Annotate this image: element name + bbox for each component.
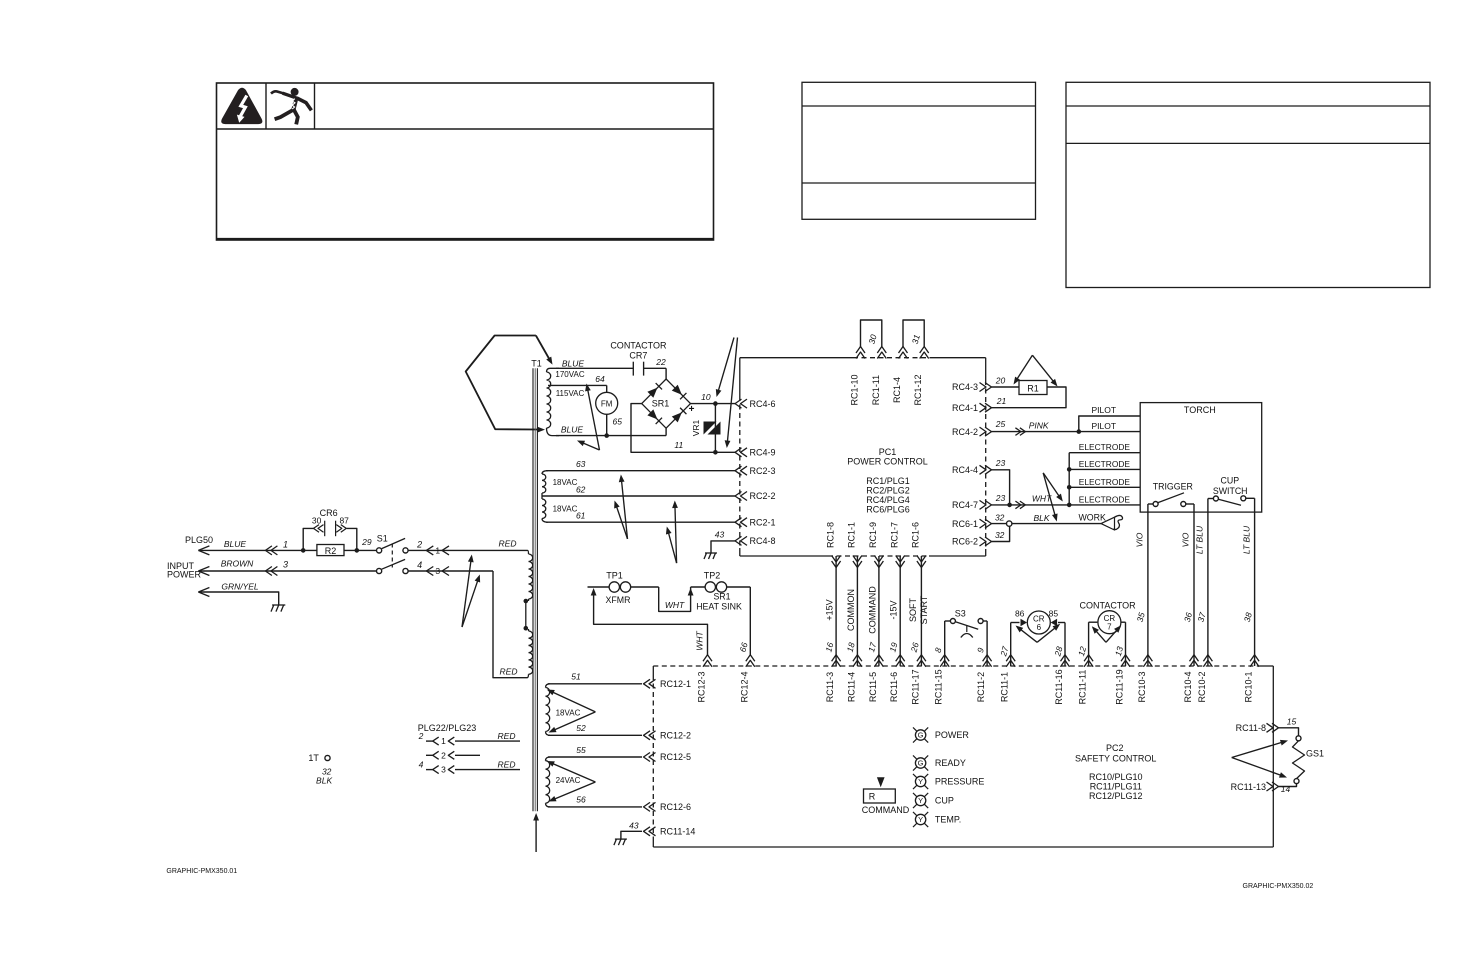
connector RC1-6 (917, 561, 926, 568)
connector RC12-3 (703, 655, 712, 662)
svg-text:RC10-3: RC10-3 (1137, 671, 1147, 702)
PC2 safety control board boundary (653, 665, 1260, 667)
annotation arrows 18VAC upper (621, 478, 627, 538)
wire 30 loop (861, 320, 882, 347)
connector RC11-11 (1084, 655, 1093, 662)
svg-text:RC12-1: RC12-1 (660, 679, 691, 689)
svg-text:TP2: TP2 (704, 571, 721, 581)
wire 4 / pin 3 to transformer primary bottom (408, 570, 493, 572)
connector RC11-14 (644, 827, 651, 836)
svg-text:18VAC: 18VAC (553, 478, 578, 487)
svg-text:21: 21 (996, 396, 1007, 406)
svg-text:BLUE: BLUE (562, 359, 585, 369)
wire 55 (548, 756, 642, 758)
svg-text:ELECTRODE: ELECTRODE (1079, 442, 1131, 452)
torch box (1140, 403, 1262, 512)
svg-text:COMMAND: COMMAND (862, 805, 910, 815)
svg-text:RC4-1: RC4-1 (952, 403, 978, 413)
wire 27 (1010, 623, 1012, 667)
svg-text:LT BLU: LT BLU (1241, 525, 1251, 554)
wire 8 (944, 621, 946, 666)
wire 26 (soft start) (920, 556, 922, 666)
svg-text:56: 56 (576, 795, 586, 805)
svg-text:RC6-1: RC6-1 (952, 519, 978, 529)
svg-text:PRESSURE: PRESSURE (935, 777, 985, 787)
svg-text:RC12-3: RC12-3 (697, 671, 707, 702)
wire from bridge bottom vertex to AC (blue) (665, 428, 667, 435)
svg-text:T1: T1 (531, 359, 542, 369)
svg-text:1: 1 (435, 546, 440, 556)
wire 18 (COMMON) (856, 556, 858, 666)
TP2 leader arrow (688, 588, 694, 596)
svg-text:RC12/PLG12: RC12/PLG12 (1089, 791, 1143, 801)
wire 25 PINK (pilot) (992, 431, 1079, 433)
PLG22/23 pin 2 (426, 754, 433, 756)
svg-text:RC2/PLG2: RC2/PLG2 (866, 486, 910, 496)
svg-text:RC11-14: RC11-14 (660, 827, 695, 837)
connector RC1-11 (877, 347, 886, 354)
svg-text:PC1: PC1 (879, 447, 897, 457)
svg-text:RC11-17: RC11-17 (910, 669, 920, 704)
PILOT wires into torch (1079, 416, 1140, 432)
svg-text:SR1: SR1 (713, 592, 730, 602)
wire 61 (546, 521, 735, 523)
svg-text:3: 3 (435, 566, 440, 576)
svg-text:RC11-1: RC11-1 (1000, 672, 1010, 702)
svg-text:29: 29 (361, 537, 372, 547)
svg-text:2: 2 (441, 750, 446, 760)
connector RC1-10 (856, 347, 865, 354)
wire 43 + ground at RC11-14 (621, 831, 642, 839)
annotation arrows near FM (581, 442, 600, 450)
svg-text:CONTACTOR: CONTACTOR (1080, 601, 1137, 611)
wire 32 from RC6-2 (992, 526, 1010, 541)
svg-text:4: 4 (417, 560, 422, 570)
connector RC4-1 (985, 403, 992, 412)
svg-text:FM: FM (601, 399, 613, 408)
svg-text:23: 23 (995, 458, 1006, 468)
CR7 annotation arrows (1094, 629, 1106, 642)
svg-text:RC1-12: RC1-12 (913, 374, 923, 405)
wire 63 (546, 470, 735, 472)
wire 28 (1064, 623, 1066, 667)
wire 11 : bridge minus to RC4-9 (631, 404, 735, 453)
svg-text:14: 14 (1281, 784, 1291, 794)
svg-text:RC4/PLG4: RC4/PLG4 (866, 495, 910, 505)
connector RC2-2 (735, 492, 742, 501)
svg-text:51: 51 (571, 672, 581, 682)
annotation arrows 18VAC lower (550, 691, 595, 712)
wire BLUE bottom to rectifier (556, 435, 666, 437)
svg-text:RED: RED (498, 760, 516, 770)
connector RC12-6 (644, 802, 651, 811)
svg-text:BLK: BLK (1033, 513, 1049, 523)
svg-text:ELECTRODE: ELECTRODE (1079, 494, 1131, 504)
PC1 power control board boundary (740, 357, 853, 359)
svg-text:R1: R1 (1027, 384, 1039, 394)
svg-text:RC10-4: RC10-4 (1183, 671, 1193, 702)
connector RC11-16 (1061, 655, 1070, 662)
connector RC1-7 (896, 561, 905, 568)
svg-text:10: 10 (701, 392, 711, 402)
annotation arrows R1 (1016, 355, 1033, 381)
connector RC1-9 (874, 561, 883, 568)
svg-text:GRN/YEL: GRN/YEL (221, 582, 259, 592)
svg-text:RC2-1: RC2-1 (750, 517, 776, 527)
connector RC4-9 (735, 448, 742, 457)
svg-text:VIO: VIO (1181, 532, 1191, 547)
svg-text:RC2-2: RC2-2 (750, 491, 776, 501)
svg-text:WHT: WHT (695, 631, 705, 651)
svg-text:RC1-11: RC1-11 (871, 375, 881, 405)
wire 36 VIO (1193, 504, 1195, 666)
svg-text:POWER: POWER (167, 570, 202, 580)
svg-text:ELECTRODE: ELECTRODE (1079, 477, 1131, 487)
node: R2 right junction (355, 548, 360, 553)
switch S1 pole 2 (377, 568, 382, 573)
svg-text:65: 65 (613, 417, 623, 427)
svg-text:BLK: BLK (316, 776, 332, 786)
svg-text:PLG50: PLG50 (185, 535, 213, 545)
svg-text:TORCH: TORCH (1184, 405, 1216, 415)
svg-text:PILOT: PILOT (1092, 405, 1117, 415)
svg-text:RC11-11: RC11-11 (1078, 670, 1088, 705)
wire 31 loop (903, 320, 924, 347)
svg-text:RC11-15: RC11-15 (934, 669, 944, 704)
svg-text:4: 4 (419, 760, 424, 770)
svg-text:3: 3 (441, 765, 446, 775)
svg-text:R: R (869, 792, 876, 802)
svg-text:18VAC: 18VAC (553, 505, 578, 514)
svg-text:RC12-5: RC12-5 (660, 752, 691, 762)
svg-text:32: 32 (995, 513, 1005, 523)
connector RC6-1 (985, 519, 992, 528)
svg-text:RC11-8: RC11-8 (1236, 723, 1266, 733)
annotation arrows 24VAC (550, 763, 595, 782)
svg-text:Y: Y (918, 815, 923, 824)
svg-text:CUP: CUP (1221, 476, 1240, 486)
svg-text:RED: RED (498, 731, 516, 741)
svg-text:COMMAND: COMMAND (867, 586, 877, 634)
svg-text:G: G (918, 759, 924, 768)
svg-text:GS1: GS1 (1306, 749, 1324, 759)
svg-text:CR6: CR6 (320, 508, 338, 518)
svg-text:2: 2 (416, 540, 422, 550)
svg-text:SOFT: SOFT (908, 597, 918, 622)
annotation arrows WHT/BLK (1043, 473, 1060, 498)
svg-text:RC10-2: RC10-2 (1197, 671, 1207, 702)
hazard triangle icon (221, 88, 262, 124)
svg-text:RC1-1: RC1-1 (847, 522, 857, 548)
svg-text:RC4-8: RC4-8 (750, 536, 776, 546)
connector RC11-2 (983, 655, 992, 662)
svg-text:S3: S3 (955, 609, 966, 619)
svg-text:RED: RED (500, 667, 518, 677)
connector RC11-15 (940, 655, 949, 662)
svg-text:1: 1 (283, 540, 288, 550)
svg-text:43: 43 (629, 821, 639, 831)
connector RC1-12 (920, 347, 929, 354)
node winding tap upper (524, 599, 529, 604)
svg-text:25: 25 (995, 419, 1006, 429)
svg-text:RC10/PLG10: RC10/PLG10 (1089, 772, 1143, 782)
wire WHT dip TP1->TP2 (659, 587, 691, 611)
svg-text:START: START (919, 595, 929, 624)
svg-text:20: 20 (995, 376, 1006, 386)
svg-text:RC1-6: RC1-6 (911, 522, 921, 548)
work clamp (1101, 517, 1115, 530)
T1 primary upper winding (170/115VAC) (547, 368, 560, 372)
node VR1 bottom (713, 450, 718, 455)
svg-text:6: 6 (1037, 623, 1042, 632)
wire 13 (1125, 622, 1127, 666)
svg-text:S1: S1 (377, 534, 388, 544)
T1 primary lower winding (RED) (528, 550, 529, 554)
svg-text:RC12-4: RC12-4 (739, 671, 749, 702)
wire 23 WHT from RC4-7 (electrode) (992, 504, 1141, 506)
svg-text:64: 64 (595, 374, 605, 384)
svg-text:RC4-2: RC4-2 (952, 427, 978, 437)
svg-text:HEAT SINK: HEAT SINK (696, 602, 742, 612)
svg-text:RC11-5: RC11-5 (868, 672, 878, 702)
node VR1 top (713, 401, 718, 406)
svg-text:PILOT: PILOT (1092, 421, 1117, 431)
svg-text:170VAC: 170VAC (555, 370, 584, 379)
resistor R2 (303, 549, 357, 551)
connector RC1-4 (899, 347, 908, 354)
svg-text:22: 22 (655, 357, 666, 367)
svg-text:VIO: VIO (1135, 532, 1145, 547)
svg-text:RC10-1: RC10-1 (1244, 671, 1254, 702)
T1 secondary 18VAC upper pair (542, 471, 548, 474)
relay contact CR6 (30/87) branch (303, 528, 314, 550)
svg-text:RC11-13: RC11-13 (1231, 782, 1266, 792)
wire 51 (548, 683, 642, 685)
svg-text:Y: Y (918, 777, 923, 786)
connector RC11-5 (874, 655, 883, 662)
svg-text:RC11-2: RC11-2 (976, 672, 986, 702)
svg-text:62: 62 (576, 485, 586, 495)
relay coil CR6 (1027, 611, 1050, 634)
node: R2 left junction (301, 548, 306, 553)
svg-text:RC1-8: RC1-8 (825, 522, 835, 548)
connector RC12-1 (644, 679, 651, 688)
svg-text:RC11-19: RC11-19 (1115, 669, 1125, 704)
wire 62 (542, 495, 735, 497)
connector RC11-3 (832, 655, 841, 662)
wire 16 (+15V) (835, 556, 837, 666)
wire 2 / pin 1 (RED) to transformer primary (408, 549, 527, 551)
core bottom annotation arrow (535, 817, 537, 852)
svg-text:R2: R2 (325, 546, 337, 556)
resistor GS1 (1293, 741, 1305, 779)
connector RC2-1 (735, 518, 742, 527)
svg-text:GRAPHIC-PMX350.02: GRAPHIC-PMX350.02 (1243, 883, 1314, 890)
node winding tap lower (524, 626, 529, 631)
svg-text:CONTACTOR: CONTACTOR (610, 341, 667, 351)
svg-text:SAFETY CONTROL: SAFETY CONTROL (1075, 754, 1156, 764)
svg-text:POWER: POWER (935, 730, 970, 740)
svg-text:SWITCH: SWITCH (1213, 486, 1248, 496)
svg-text:7: 7 (1107, 623, 1112, 632)
T1 secondary 24VAC (546, 757, 551, 761)
wire 38 LT BLU (1254, 498, 1256, 666)
svg-text:RC12-2: RC12-2 (660, 731, 691, 741)
svg-text:LT BLU: LT BLU (1195, 525, 1205, 554)
T1 secondary 18VAC lower (546, 684, 551, 688)
wire 22 (644, 367, 667, 369)
tap 115VAC / wire 64 to fan motor FM (548, 384, 607, 386)
TP1 leader arrow (591, 588, 597, 596)
svg-text:30: 30 (312, 516, 322, 526)
connector RC11-8 / wire 15 (1272, 723, 1279, 732)
wire 9 (986, 621, 988, 666)
svg-text:RC4-4: RC4-4 (952, 465, 978, 475)
wire 10 : bridge plus to RC4-6 (691, 403, 736, 405)
connector RC2-3 (735, 466, 742, 475)
svg-text:+: + (689, 404, 695, 415)
connector RC4-7 (985, 500, 992, 509)
svg-text:PINK: PINK (1029, 421, 1049, 431)
svg-text:BLUE: BLUE (561, 425, 584, 435)
svg-text:READY: READY (935, 758, 966, 768)
bridge rectifier SR1 (642, 379, 691, 428)
varistor VR1 (714, 404, 716, 453)
connector RC4-6 (735, 399, 742, 408)
LED indicators (924, 739, 928, 743)
fan motor FM (596, 392, 618, 414)
svg-text:G: G (918, 731, 924, 740)
svg-text:63: 63 (576, 459, 586, 469)
svg-text:32: 32 (995, 530, 1005, 540)
svg-text:115VAC: 115VAC (556, 389, 585, 398)
connector RC10-4 (1190, 655, 1199, 662)
svg-text:WHT: WHT (665, 600, 685, 610)
wire 170VAC top (BLUE) to contactor CR7 (556, 367, 633, 369)
connector RC10-2 (1203, 655, 1212, 662)
electric shock person icon (291, 88, 298, 95)
svg-text:PC2: PC2 (1106, 743, 1124, 753)
svg-text:1: 1 (441, 736, 446, 746)
connector RC1-8 (832, 561, 841, 568)
connector RC6-2 (985, 537, 992, 546)
wire 35 VIO (1147, 504, 1149, 666)
svg-text:RC11-6: RC11-6 (889, 672, 899, 702)
svg-text:RC6/PLG6: RC6/PLG6 (866, 505, 910, 515)
annotation arrows PLG22/23 wires (462, 558, 471, 627)
wire 19 (-15V) (899, 556, 901, 666)
svg-text:RC11/PLG11: RC11/PLG11 (1090, 782, 1142, 792)
wire 52 (548, 734, 642, 736)
chassis ground (input) (272, 604, 285, 606)
electrode bus + ELECTRODE wires (1068, 453, 1070, 505)
command pot R (877, 777, 885, 787)
svg-text:VR1: VR1 (691, 419, 701, 436)
connector RC4-2 (985, 427, 992, 436)
GS1 annotation arrows (1232, 742, 1284, 758)
svg-text:BLUE: BLUE (224, 539, 247, 549)
svg-text:RC1-10: RC1-10 (850, 374, 860, 405)
svg-text:RC2-3: RC2-3 (750, 466, 776, 476)
resistor R1 with wires 20/21 (992, 386, 1020, 388)
middle header table (802, 82, 1036, 219)
svg-text:BROWN: BROWN (221, 559, 254, 569)
connector RC11-4 (853, 655, 862, 662)
svg-text:PLG22/PLG23: PLG22/PLG23 (418, 723, 477, 733)
svg-text:1T: 1T (308, 753, 319, 763)
warning table (217, 83, 714, 240)
wire down-left leg to lower primary (493, 571, 528, 678)
svg-text:ELECTRODE: ELECTRODE (1079, 459, 1131, 469)
svg-text:24VAC: 24VAC (556, 776, 581, 785)
svg-text:WORK: WORK (1079, 513, 1106, 523)
svg-text:15: 15 (1287, 717, 1297, 727)
svg-text:RC4-3: RC4-3 (952, 382, 978, 392)
connector RC11-6 (896, 655, 905, 662)
svg-text:+15V: +15V (825, 599, 835, 620)
node electrode bus bottom (1067, 503, 1072, 508)
wire 32 BLK / WORK lead (992, 523, 1102, 525)
wire 12 (1088, 622, 1090, 666)
svg-text:RC1-7: RC1-7 (889, 522, 899, 548)
connector RC11-17 (917, 655, 926, 662)
connector RC10-3 (1143, 655, 1152, 662)
connector RC11-13 / wire 14 (1279, 784, 1297, 787)
svg-text:11: 11 (674, 440, 683, 450)
svg-text:86: 86 (1015, 609, 1025, 619)
svg-text:TP1: TP1 (606, 571, 623, 581)
svg-text:GRAPHIC-PMX350.01: GRAPHIC-PMX350.01 (166, 868, 237, 875)
svg-text:RC12-6: RC12-6 (660, 802, 691, 812)
svg-text:87: 87 (339, 516, 349, 526)
connector RC12-5 (644, 753, 651, 762)
connector RC12-2 (644, 731, 651, 740)
wire 43 + ground at RC4-8 (711, 541, 735, 553)
svg-text:SR1: SR1 (652, 399, 670, 409)
connector RC10-1 (1250, 655, 1259, 662)
connector RC11-19 (1121, 655, 1130, 662)
svg-text:RC11-3: RC11-3 (825, 672, 835, 702)
svg-text:2: 2 (418, 731, 424, 741)
svg-text:RC4-9: RC4-9 (750, 448, 776, 458)
connector RC1-1 (853, 561, 862, 568)
svg-text:CR7: CR7 (629, 350, 647, 360)
svg-text:23: 23 (995, 493, 1006, 503)
svg-text:43: 43 (715, 530, 725, 540)
wire 17 (COMMAND) (878, 556, 880, 666)
connector RC11-1 (1006, 655, 1015, 662)
CR6 annotation arrows (1019, 628, 1037, 642)
connector RC4-3 (985, 383, 992, 392)
right header table (1066, 82, 1430, 287)
svg-text:3: 3 (283, 560, 288, 570)
svg-text:52: 52 (576, 723, 586, 733)
svg-text:TRIGGER: TRIGGER (1153, 482, 1193, 492)
svg-text:RED: RED (499, 539, 517, 549)
svg-text:RC1/PLG1: RC1/PLG1 (866, 476, 910, 486)
connector RC4-8 (735, 536, 742, 545)
annotation hexagon balloon (466, 336, 538, 430)
svg-text:RC4-7: RC4-7 (952, 500, 978, 510)
svg-text:Y: Y (918, 796, 923, 805)
svg-text:COMMON: COMMON (846, 589, 856, 631)
svg-text:RC4-6: RC4-6 (750, 399, 776, 409)
connector RC4-4 (985, 465, 992, 474)
wire 23 from RC4-4 (992, 470, 1010, 505)
node FM/blue junction (604, 433, 609, 438)
svg-text:RC11-4: RC11-4 (846, 672, 856, 702)
wire 56 (548, 806, 642, 808)
